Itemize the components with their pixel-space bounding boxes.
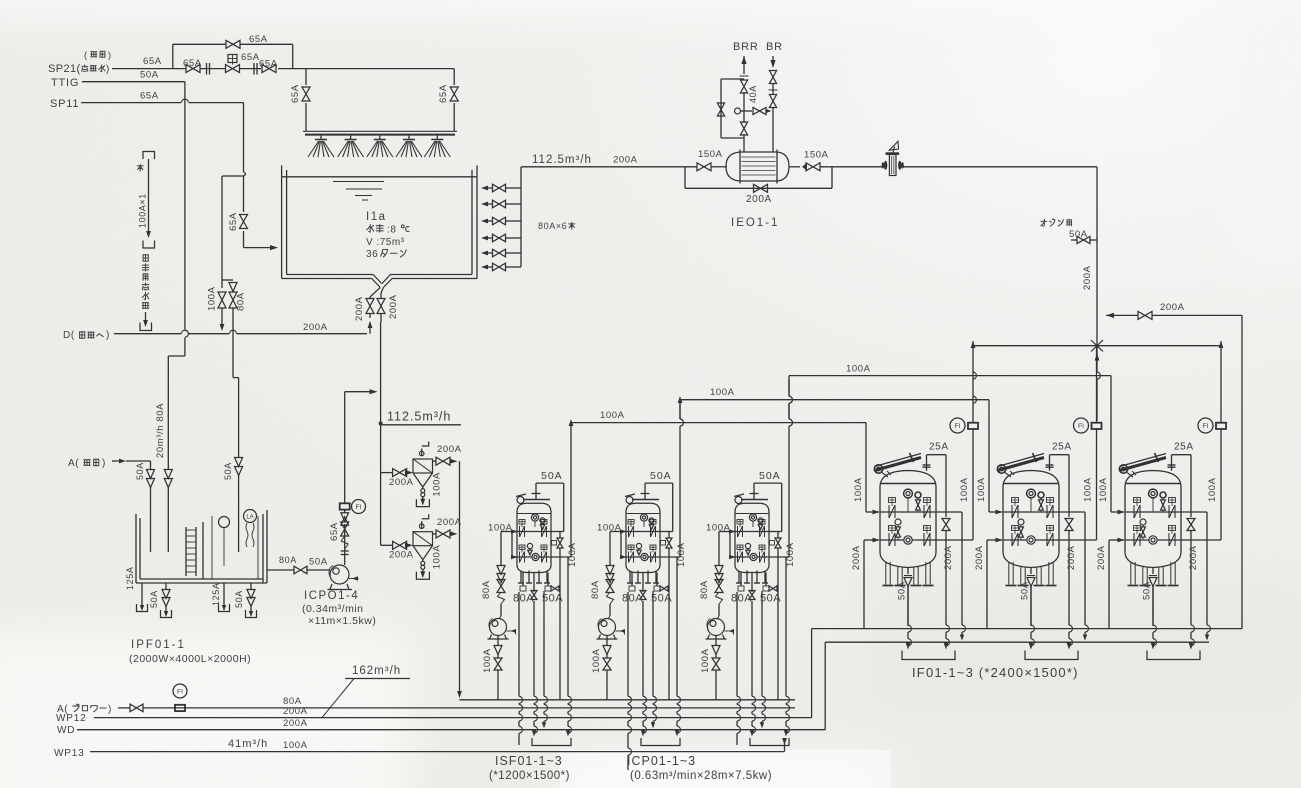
wire SP21 line 65A <box>112 68 186 70</box>
svg-text:65A: 65A <box>438 84 449 103</box>
wire IF01-3 column onto 642 line <box>1206 512 1208 625</box>
annotation bracket top <box>143 152 155 160</box>
tank IPF01-1 inner walls <box>202 522 204 579</box>
wire IF01-2 right 200A column to bracket <box>1068 540 1070 625</box>
svg-text:): ) <box>108 50 112 60</box>
wire ISF01-3 pump 100A down column <box>715 636 717 647</box>
label water temp 8degC <box>367 224 374 232</box>
wire ISF01-3 80A pump suction column <box>718 532 720 567</box>
vessel ISF01-2 bottom drain fittings 80A 50A <box>631 573 633 587</box>
wire main 200A vertical from tank drain <box>380 322 382 545</box>
strainer 2 drain to funnel <box>422 560 424 562</box>
svg-text:80A: 80A <box>481 580 492 599</box>
svg-text:200A: 200A <box>283 706 308 717</box>
svg-text:100A: 100A <box>676 542 687 567</box>
vessel IF01-2 lower pipe <box>987 539 997 541</box>
valve 65A <box>262 65 276 73</box>
svg-text:FI: FI <box>1202 423 1208 430</box>
svg-text:25A: 25A <box>929 442 949 453</box>
wire bypass over valve group <box>172 44 174 68</box>
vessel ISF01-2 lower pipe <box>620 532 622 558</box>
wire WP12 200A line <box>94 717 812 719</box>
annotation cleaning drain pipe text <box>143 255 148 261</box>
svg-text:×11m×1.5kw): ×11m×1.5kw) <box>308 615 376 627</box>
svg-text:FI: FI <box>355 504 361 511</box>
vessel ISF01-1 gauges upper <box>531 514 538 521</box>
vessel IF01-3 legs <box>1130 562 1132 585</box>
svg-text:ICP01-1~3: ICP01-1~3 <box>627 754 696 768</box>
wire ISF01-1 columns to headers <box>518 592 520 696</box>
wire header line 1 <box>460 699 796 701</box>
vessel IF01-1 50A drain <box>907 568 909 575</box>
valve 65A on SP21 line <box>186 65 200 73</box>
svg-text:65A: 65A <box>228 212 239 231</box>
sprinkler nozzle 1 <box>320 136 322 140</box>
instrument FI on blower line <box>175 705 185 711</box>
vessel IF01-3 25A loop <box>1172 454 1192 456</box>
vessel ISF01-1 body <box>517 512 551 566</box>
svg-text:36: 36 <box>366 249 378 260</box>
wire 80A drop step to 50A valve into IPF tank <box>233 377 239 379</box>
vessel IF01-2 right bypass valve <box>1068 512 1070 517</box>
svg-text:BRR: BRR <box>733 41 759 53</box>
svg-text:100A: 100A <box>853 477 864 502</box>
svg-text:100A: 100A <box>567 542 578 567</box>
wire IF01-2 drain column to bracket <box>1030 586 1032 625</box>
vessel ISF01-3 gauges upper <box>749 514 756 521</box>
svg-text:200A: 200A <box>437 517 462 528</box>
svg-text:): ) <box>106 330 110 341</box>
wire spray right drop <box>453 69 455 85</box>
strainer 2 vent <box>421 521 423 529</box>
wire ISF01-2 pump 100A down column <box>606 636 608 647</box>
wire IF01-2 FI column down to lower pipe <box>1096 429 1098 540</box>
strainer 2 outlet 200A <box>433 533 437 535</box>
svg-text:100A: 100A <box>959 477 970 502</box>
wire TTIG riser down <box>184 82 186 330</box>
svg-text:80A×6: 80A×6 <box>538 221 567 231</box>
wire WD 200A line <box>77 729 825 731</box>
vessel ISF01-1 upper pipe butterfly valves <box>519 520 525 525</box>
wire IF01-1 FI column down to lower pipe <box>972 429 974 540</box>
vessel ISF01-1 lower pipe <box>511 532 513 558</box>
vessel IF01-1 25A loop <box>927 454 947 456</box>
strainer 2 body <box>413 532 433 546</box>
annotation bracket bottom <box>140 323 152 331</box>
vessel IF01-1 gauges <box>904 489 913 498</box>
vessel ISF01-1 gauges lower <box>527 543 532 548</box>
svg-text:41m³/h: 41m³/h <box>228 738 268 750</box>
vessel IF01-1 body <box>879 487 881 552</box>
svg-text:65A: 65A <box>140 91 159 102</box>
svg-text:200A: 200A <box>1082 265 1093 290</box>
vessel IF01-2 davit arm <box>997 465 1005 473</box>
svg-text:100A×1: 100A×1 <box>138 193 148 228</box>
vessel ISF01-3 upper pipe butterfly valves <box>737 520 743 525</box>
wire IF01-3 FI column down to lower pipe <box>1220 429 1222 540</box>
vessel ISF01-3 body <box>735 512 769 566</box>
vessel ISF01-3 gauges lower <box>745 543 750 548</box>
svg-text:WP13: WP13 <box>54 748 84 759</box>
valves on riser 65A <box>341 513 349 521</box>
svg-text:50A: 50A <box>1142 581 1153 600</box>
svg-text:V :75m³: V :75m³ <box>366 237 405 248</box>
wire branch to 100A/80A valve pair <box>222 175 244 177</box>
svg-text:65A: 65A <box>329 522 340 541</box>
pump ISF01-2 (ICP) <box>599 619 616 636</box>
wire TTIG line 50A <box>82 81 185 83</box>
wire HE outlet <box>789 166 800 168</box>
wire ISF01-3 columns to headers <box>736 592 738 696</box>
svg-text:): ) <box>108 704 112 715</box>
vessel ISF01-2 upper pipe butterfly valves <box>628 520 634 525</box>
wire ozone vertical below junction <box>1096 346 1098 372</box>
wire IF01-3 left feed 100A <box>1110 376 1112 512</box>
vessel ISF01-2 gauges lower <box>636 543 641 548</box>
svg-text:(0.34m³/min: (0.34m³/min <box>302 603 364 615</box>
collector bracket IF01-2 <box>1025 651 1078 660</box>
valve 65A on SP11 riser <box>240 215 248 229</box>
vessel IF01-3 top nozzle <box>1171 455 1173 471</box>
svg-text:100A: 100A <box>600 410 625 421</box>
svg-text:TTIG: TTIG <box>51 77 79 89</box>
svg-text:200A: 200A <box>1160 302 1185 313</box>
instrument LA <box>244 510 257 523</box>
svg-text:50A: 50A <box>234 590 244 608</box>
svg-text:65A: 65A <box>241 52 260 63</box>
vessel ISF01-1 lower pipe butterfly valves <box>519 545 525 550</box>
svg-text:200A: 200A <box>1188 545 1199 570</box>
BRR-BR cross line 40A <box>735 108 741 114</box>
svg-text:WD: WD <box>57 725 75 736</box>
svg-text:100A: 100A <box>1207 477 1218 502</box>
svg-text:80A: 80A <box>236 292 247 311</box>
svg-text:40A: 40A <box>748 85 758 103</box>
pump ISF01-3 (ICP) <box>708 619 725 636</box>
vessel IF01-2 gauges <box>1027 489 1036 498</box>
svg-text:200A: 200A <box>389 477 414 488</box>
vessel ISF01-2 body <box>626 512 660 566</box>
flange pair <box>206 63 208 75</box>
svg-text:50A: 50A <box>149 590 159 608</box>
strainer 1 body <box>413 459 433 473</box>
vessel IF01-1 legs <box>885 562 887 585</box>
wire SP11 riser to tank I1a <box>243 176 245 212</box>
BRR valves <box>740 75 749 77</box>
tank I1a water surface marks <box>333 181 384 183</box>
vessel IF01-3 50A drain <box>1152 568 1154 575</box>
annotation bracket mid <box>143 241 155 249</box>
valve 65A spray right <box>450 87 458 101</box>
sprinkler nozzle 5 <box>436 136 438 140</box>
vessel ISF01-1 right bypass fitting <box>552 541 557 546</box>
spray header pipe <box>303 130 457 132</box>
wire IF01-1 left feed 100A <box>865 423 867 512</box>
svg-text:WP12: WP12 <box>56 713 86 724</box>
vessel IF01-1 davit arm <box>874 465 882 473</box>
wire right edge riser <box>1241 315 1243 628</box>
svg-text:100A: 100A <box>976 477 987 502</box>
svg-text:I1a: I1a <box>366 211 387 223</box>
svg-text:A(: A( <box>68 458 79 469</box>
svg-text:65A: 65A <box>183 58 202 69</box>
svg-text:50A: 50A <box>223 462 233 480</box>
instrument FI IF01-1 <box>972 346 974 422</box>
vessel ISF01-1 50A loop <box>535 483 537 493</box>
vessel IF01-2 body <box>1002 487 1004 552</box>
svg-text:FI: FI <box>1078 423 1084 430</box>
vessel ISF01-2 right bypass fitting <box>661 541 666 546</box>
vessel ISF01-1 legs <box>520 571 522 584</box>
svg-text:SP11: SP11 <box>50 98 79 110</box>
vessel IF01-1 right bypass valve <box>945 512 947 517</box>
svg-text:50A: 50A <box>140 70 159 81</box>
wire 100A line 3 (to IF01-3) <box>789 375 1111 377</box>
svg-text:D(: D( <box>63 330 75 341</box>
svg-text:50A: 50A <box>541 470 563 482</box>
vessel IF01-2 upper pipe <box>989 511 997 513</box>
svg-text:200A: 200A <box>389 550 414 561</box>
vessel ISF01-2 gauges upper <box>640 514 647 521</box>
vessel ISF01-3 legs <box>738 571 740 584</box>
vessel IF01-2 50A drain <box>1030 568 1032 575</box>
svg-text:100A: 100A <box>432 472 443 497</box>
wire A blower line 80A <box>118 707 130 709</box>
vessel IF01-2 25A loop <box>1050 454 1070 456</box>
wire ISF01-2 columns to headers <box>627 592 629 696</box>
svg-text:100A: 100A <box>283 740 308 751</box>
inline injection fitting with pennant <box>889 155 896 176</box>
instrument FI IF01-2 <box>1096 346 1098 422</box>
wire WP12 corner up to 628 return <box>811 629 813 718</box>
annotation leader 2 <box>145 312 147 322</box>
wire 628 return line to right edge <box>812 628 1242 630</box>
svg-text:): ) <box>102 458 106 469</box>
collector bracket IF01-1 <box>902 651 955 660</box>
wire IF01-2 column onto 642 line <box>1084 512 1086 625</box>
riser ISF2 100A up <box>679 400 681 419</box>
svg-text:100A: 100A <box>1083 477 1094 502</box>
wire WP13 end riser <box>784 740 786 752</box>
vessel ISF01-1 bottom drain fittings 80A 50A <box>522 573 524 587</box>
ozone branch 50A valve <box>1071 239 1077 241</box>
vessel ISF01-3 bottom drain fittings 80A 50A <box>740 573 742 587</box>
svg-text:50A: 50A <box>1020 581 1031 600</box>
svg-text:ISF01-1~3: ISF01-1~3 <box>495 754 563 768</box>
wire main line to heat exchanger 112.5m3/h 200A <box>521 166 697 168</box>
collector bracket ISF01-3 <box>750 738 789 746</box>
svg-text:BR: BR <box>766 41 783 53</box>
wire spray left drop <box>305 69 307 85</box>
svg-text:200A: 200A <box>1066 545 1077 570</box>
svg-text:100A: 100A <box>700 648 711 673</box>
flange pair <box>253 63 255 75</box>
vessel ISF01-3 50A loop <box>753 483 755 493</box>
wire SP11 riser down <box>243 103 245 172</box>
svg-text:200A: 200A <box>437 444 462 455</box>
wire 100A line 1 (to IF01-1) <box>569 419 574 426</box>
sprinkler nozzle 4 <box>408 136 410 140</box>
svg-text:ICPO1-4: ICPO1-4 <box>304 590 359 602</box>
jog where SP11 crosses TTIG riser <box>181 99 188 102</box>
junction X at ozone column <box>1091 340 1103 352</box>
svg-text:(: ( <box>84 50 88 60</box>
svg-text:80A: 80A <box>513 593 534 605</box>
strainer 1 vent <box>421 449 423 457</box>
tank IPF01-1 walls <box>135 514 137 583</box>
wire TTIG riser step left to 80A drop <box>168 355 185 357</box>
svg-text:): ) <box>106 64 110 75</box>
collector bracket IF01-3 <box>1147 651 1200 660</box>
vessel ISF01-2 top lid and fittings <box>632 499 659 501</box>
tank I1a bottom <box>282 278 372 280</box>
svg-text:100A: 100A <box>1098 477 1109 502</box>
svg-text:200A: 200A <box>943 545 954 570</box>
wire 345.7 cross header <box>973 345 1221 347</box>
wire IF01-3 drain column to bracket <box>1152 586 1154 625</box>
wire 80A branch drop <box>222 279 233 281</box>
wire 100A drop with valve to D line <box>218 292 226 308</box>
vessel ISF01-3 lower pipe butterfly valves <box>737 545 743 550</box>
svg-text:65A: 65A <box>249 34 268 45</box>
vessel IF01-1 butterfly valves <box>889 498 896 503</box>
wire IF01-2 left lower feed 200A <box>986 540 988 629</box>
hops where FI columns cross distribution lines <box>973 372 977 379</box>
svg-text:100A: 100A <box>482 648 493 673</box>
vessel IF01-3 gauges <box>1149 489 1158 498</box>
wire 200A drain valves under tank <box>369 297 371 299</box>
svg-text:65A: 65A <box>143 56 162 67</box>
svg-text:100A: 100A <box>591 648 602 673</box>
svg-text:LA: LA <box>246 515 253 521</box>
vessel ISF01-2 lower pipe butterfly valves <box>628 545 634 550</box>
svg-text:200A: 200A <box>354 296 365 321</box>
wire tank outlet manifold 200A <box>520 167 522 267</box>
svg-text:(*1200×1500*): (*1200×1500*) <box>489 770 570 782</box>
vessel IF01-3 right bypass valve <box>1190 512 1192 517</box>
vessel IF01-1 top nozzle <box>926 455 928 471</box>
BR valves <box>769 71 776 84</box>
svg-text:(2000W×4000L×2000H): (2000W×4000L×2000H) <box>129 653 251 665</box>
valve 80A on 20m3/h drop <box>164 470 172 479</box>
vessel ISF01-2 legs <box>629 571 631 584</box>
svg-text:50A: 50A <box>1069 229 1088 240</box>
svg-text:150A: 150A <box>804 150 829 161</box>
wire right corner down (ozone vertical) <box>1096 167 1098 240</box>
wire WP13 100A line <box>90 751 785 753</box>
svg-text:200A: 200A <box>746 194 772 205</box>
wire SP11 line 65A <box>81 102 181 104</box>
wire 100A line 2 (to IF01-2) <box>678 396 683 403</box>
vessel IF01-2 butterfly valves <box>1012 498 1019 503</box>
vessel IF01-1 lower pipe <box>864 539 874 541</box>
svg-text:SP21(: SP21( <box>48 63 81 75</box>
wire ISF01-1 100A riser to distribution <box>570 426 572 557</box>
svg-text:125A: 125A <box>125 567 135 590</box>
wire ISF01-2 100A riser to distribution <box>679 403 681 419</box>
wire IF01-2 left feed 100A <box>988 400 990 512</box>
node junction dot <box>379 421 383 425</box>
svg-text:200A: 200A <box>388 294 399 319</box>
wire D 200A line <box>114 333 181 335</box>
wire WD corner up to 642 line <box>824 642 826 730</box>
svg-text:100A: 100A <box>846 364 871 375</box>
svg-text:50A: 50A <box>135 462 145 480</box>
svg-text:25A: 25A <box>1174 442 1194 453</box>
wire IF01-3 left lower feed 200A <box>1108 540 1110 629</box>
svg-text:80A: 80A <box>279 555 297 565</box>
wire IF01-1 drain column to bracket <box>907 586 909 625</box>
wire 642 collect line <box>825 641 1209 643</box>
wire IF01-1 right 200A column to bracket <box>945 540 947 625</box>
svg-text:50A: 50A <box>897 581 908 600</box>
svg-text:IEO1-1: IEO1-1 <box>731 217 779 229</box>
wire spray header top line <box>306 68 454 70</box>
vessel ISF01-1 top lid and fittings <box>523 499 550 501</box>
tank IPF01-1 internals ladder <box>185 527 187 576</box>
wire ISF01-1 pump 100A down column <box>497 636 499 647</box>
heat exchanger IEO1-1 body <box>726 152 789 181</box>
wire ozone vertical continues <box>1096 240 1098 346</box>
wire ICPO1-4 discharge riser top run <box>344 392 346 500</box>
strainer 2 inlet valve 200A <box>381 544 393 546</box>
vessel IF01-3 body <box>1124 487 1126 552</box>
svg-text:200A: 200A <box>851 545 862 570</box>
svg-text:25A: 25A <box>1052 442 1072 453</box>
vessel ISF01-2 50A loop <box>644 483 646 493</box>
svg-text:200A: 200A <box>303 322 328 333</box>
wire HE bypass 200A <box>684 167 686 189</box>
tank I1a top rim <box>282 176 477 178</box>
instrument FI IF01-3 <box>1220 346 1222 422</box>
pump ICPO1-4 <box>330 565 349 584</box>
svg-text:112.5m³/h: 112.5m³/h <box>387 410 451 424</box>
pump ISF01-1 (ICP) <box>490 619 507 636</box>
vessel IF01-3 lower pipe <box>1109 539 1119 541</box>
valve 65A on bypass <box>226 40 240 48</box>
wire 200A return line from right <box>1106 313 1114 318</box>
wire ISF01-1 80A pump suction column <box>500 532 502 567</box>
svg-text:80A: 80A <box>731 593 752 605</box>
vessel IF01-2 legs <box>1008 562 1010 585</box>
svg-text:200A: 200A <box>613 155 638 166</box>
svg-text:FI: FI <box>177 689 183 696</box>
wire A line drop with 50A valves <box>126 460 151 462</box>
wire line from fitting to right corner <box>903 166 1097 168</box>
svg-text:100A: 100A <box>710 387 735 398</box>
svg-text:100A: 100A <box>785 542 796 567</box>
svg-text:100A: 100A <box>207 286 218 311</box>
wire IF01-1 left lower feed 200A <box>863 540 865 629</box>
svg-text:200A: 200A <box>283 718 308 729</box>
svg-text:200A: 200A <box>974 545 985 570</box>
wire IF01-1 column onto 642 line <box>961 512 963 625</box>
wire pump discharge riser <box>344 500 346 503</box>
wire ISF01-2 80A pump suction column <box>609 532 611 567</box>
strainer 1 drain to funnel <box>422 487 424 489</box>
wire strainer outlet header down to bottom line <box>459 461 461 534</box>
svg-text:80A: 80A <box>590 580 601 599</box>
valve 65A spray left <box>302 87 310 101</box>
annotation leader 100A x 1 <box>148 159 150 233</box>
wire D line riser to tank drain valve <box>369 322 371 334</box>
svg-text::8: :8 <box>387 225 397 236</box>
vessel IF01-1 upper pipe <box>866 511 874 513</box>
svg-text:IPF01-1: IPF01-1 <box>131 639 186 651</box>
wire ISF01-3 100A riser to distribution <box>788 379 790 396</box>
valve 150A right of HE <box>802 163 807 171</box>
vessel IF01-3 upper pipe <box>1111 511 1119 513</box>
